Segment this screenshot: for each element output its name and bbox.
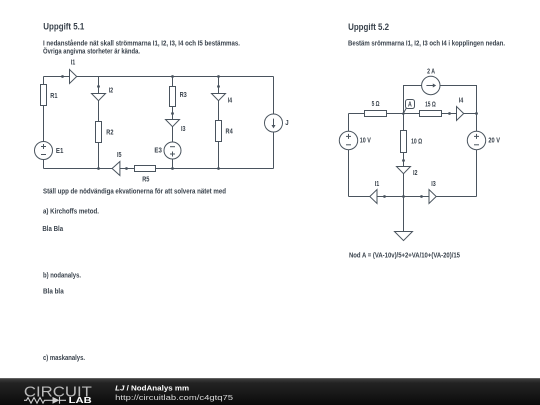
svg-text:10 Ω: 10 Ω [411, 139, 422, 146]
wire R1 to E1 [43, 106, 45, 142]
svg-text:LJ / NodAnalys mm: LJ / NodAnalys mm [115, 383, 189, 392]
current probe I2 [92, 94, 106, 101]
svg-text:I1: I1 [375, 181, 380, 188]
svg-text:I2: I2 [109, 88, 114, 95]
svg-text:LAB: LAB [69, 395, 92, 405]
svg-text:I1: I1 [71, 60, 76, 67]
svg-text:I5: I5 [117, 152, 122, 159]
current probe I3 [166, 120, 180, 127]
svg-text:I4: I4 [459, 98, 464, 105]
svg-text:I nedanstående nät skall ström: I nedanstående nät skall strömmarna I1, … [43, 40, 240, 48]
node dot right rail main [475, 112, 478, 115]
svg-text:20 V: 20 V [488, 137, 500, 144]
wire x3 top to R3 [172, 77, 174, 87]
current probe I1 c2 [370, 190, 377, 204]
svg-text:15 Ω: 15 Ω [425, 101, 436, 108]
wire J to bottom rail [273, 132, 275, 169]
current probe I4 [212, 94, 226, 101]
wire node A to 10ohm [403, 114, 405, 131]
current source 2A [422, 76, 440, 94]
wire R2 to bottom rail [98, 143, 100, 169]
wire 15ohm to right rail [442, 113, 477, 115]
resistor R2 [96, 122, 102, 143]
wire I2 branch top [98, 77, 100, 94]
svg-text:http://circuitlab.com/c4gtq75: http://circuitlab.com/c4gtq75 [115, 393, 233, 402]
node dot I2 probe terminal [97, 85, 100, 88]
wire 5ohm to node A [387, 113, 404, 115]
wire main rail circuit 2 left [349, 113, 365, 115]
resistor R3 [170, 87, 176, 107]
node dot top x4 [217, 75, 220, 78]
resistor 10ohm [401, 131, 407, 153]
node dot I1 probe terminal [61, 75, 64, 78]
svg-text:I3: I3 [431, 181, 436, 188]
wire R3 to I3 [172, 107, 174, 120]
svg-text:10 V: 10 V [360, 137, 371, 144]
footer bar [0, 378, 540, 405]
current probe I5 [112, 162, 120, 176]
node A flag [403, 100, 415, 115]
node dot I1 probe terminal c2 [383, 195, 386, 198]
svg-text:R4: R4 [226, 128, 233, 135]
wire bottom rail circuit 1 [44, 168, 274, 170]
node dot I3 probe terminal c2 [420, 195, 423, 198]
wire x4 top to I4 [218, 77, 220, 94]
svg-text:J: J [285, 120, 288, 127]
svg-text:A: A [408, 101, 412, 108]
wire I2 to R2 [98, 101, 100, 122]
svg-text:Övriga angivna storheter är kä: Övriga angivna storheter är kända. [43, 46, 140, 55]
svg-text:R1: R1 [50, 93, 57, 100]
voltage source E3 [164, 142, 181, 159]
wire 20V to bottom c2 [476, 150, 478, 197]
wire I4 to R4 [218, 101, 220, 121]
current probe I3 c2 [429, 190, 436, 204]
node dot I2 probe terminal c2 [402, 159, 405, 162]
node dot bottom center junction [402, 195, 405, 198]
node dot I4 probe terminal c2 [448, 112, 451, 115]
wire left branch upper [43, 77, 45, 85]
svg-text:2 A: 2 A [427, 69, 435, 76]
wire R4 to bottom rail [218, 142, 220, 169]
svg-text:a) Kirchoffs metod.: a) Kirchoffs metod. [43, 208, 99, 215]
wire bypass up left [404, 86, 422, 114]
voltage source 20V [467, 131, 485, 149]
node dot I5 probe terminal [125, 167, 128, 170]
wire 10ohm to I2 [403, 153, 405, 167]
voltage source 10V [339, 131, 357, 149]
wire left branch c2 [348, 114, 350, 132]
wire I2 to bottom junction [403, 174, 405, 197]
current probe I2 c2 [397, 167, 411, 174]
wire right branch top [273, 77, 275, 115]
wire top rail circuit 1 [44, 76, 274, 78]
svg-text:E1: E1 [56, 148, 64, 155]
ground [395, 232, 413, 241]
svg-text:I4: I4 [228, 97, 233, 104]
svg-text:Uppgift 5.1: Uppgift 5.1 [43, 22, 84, 32]
wire 10V to bottom c2 [348, 150, 350, 197]
resistor 5ohm [365, 111, 387, 117]
svg-text:R3: R3 [180, 92, 187, 99]
svg-text:b) nodanalys.: b) nodanalys. [43, 272, 81, 279]
wire bottom rail circuit 2 [349, 196, 477, 198]
svg-text:Uppgift 5.2: Uppgift 5.2 [348, 22, 389, 32]
wire right branch c2 [476, 114, 478, 132]
svg-text:Ställ upp de nödvändiga ekvati: Ställ upp de nödvändiga ekvationerna för… [43, 189, 226, 196]
node dot center junction [402, 112, 404, 114]
wire ground stem [403, 197, 405, 232]
svg-text:I3: I3 [181, 126, 186, 133]
svg-text:Bla Bla: Bla Bla [42, 226, 63, 233]
svg-text:c) maskanalys.: c) maskanalys. [43, 355, 85, 362]
svg-text:Nod A = (VA-10v)/5+2+VA/10+(VA: Nod A = (VA-10v)/5+2+VA/10+(VA-20)/15 [349, 252, 460, 259]
svg-text:R5: R5 [142, 177, 149, 184]
svg-text:R2: R2 [106, 130, 113, 137]
resistor 15ohm [420, 111, 442, 117]
node dot bottom x4 [217, 167, 220, 170]
node dot I4 probe terminal [217, 85, 220, 88]
logo resistor zigzag and diode [24, 397, 66, 404]
node dot top x3 [171, 75, 174, 78]
wire E1 to bottom rail [43, 160, 45, 169]
svg-text:5 Ω: 5 Ω [372, 101, 380, 108]
svg-text:I2: I2 [413, 170, 418, 177]
wire bypass right [440, 86, 477, 114]
current probe I1 [70, 70, 77, 84]
current source J [265, 114, 283, 132]
wire I3 to E3 [172, 127, 174, 142]
resistor R1 [41, 85, 47, 106]
wire node A to 15ohm [404, 113, 420, 115]
svg-text:Bla bla: Bla bla [43, 288, 64, 295]
svg-text:E3: E3 [154, 147, 162, 154]
node dot bottom x3 [171, 167, 174, 170]
node dot I3 probe terminal [171, 112, 174, 115]
node dot bottom x2 [97, 167, 100, 170]
resistor R5 [135, 166, 156, 172]
svg-text:Bestäm srömmarna I1, I2, I3 oc: Bestäm srömmarna I1, I2, I3 och I4 i kop… [348, 41, 505, 48]
resistor R4 [216, 121, 222, 142]
wire E3 to bottom rail [172, 159, 174, 169]
voltage source E1 [35, 142, 53, 160]
current probe I4 c2 [457, 107, 464, 121]
